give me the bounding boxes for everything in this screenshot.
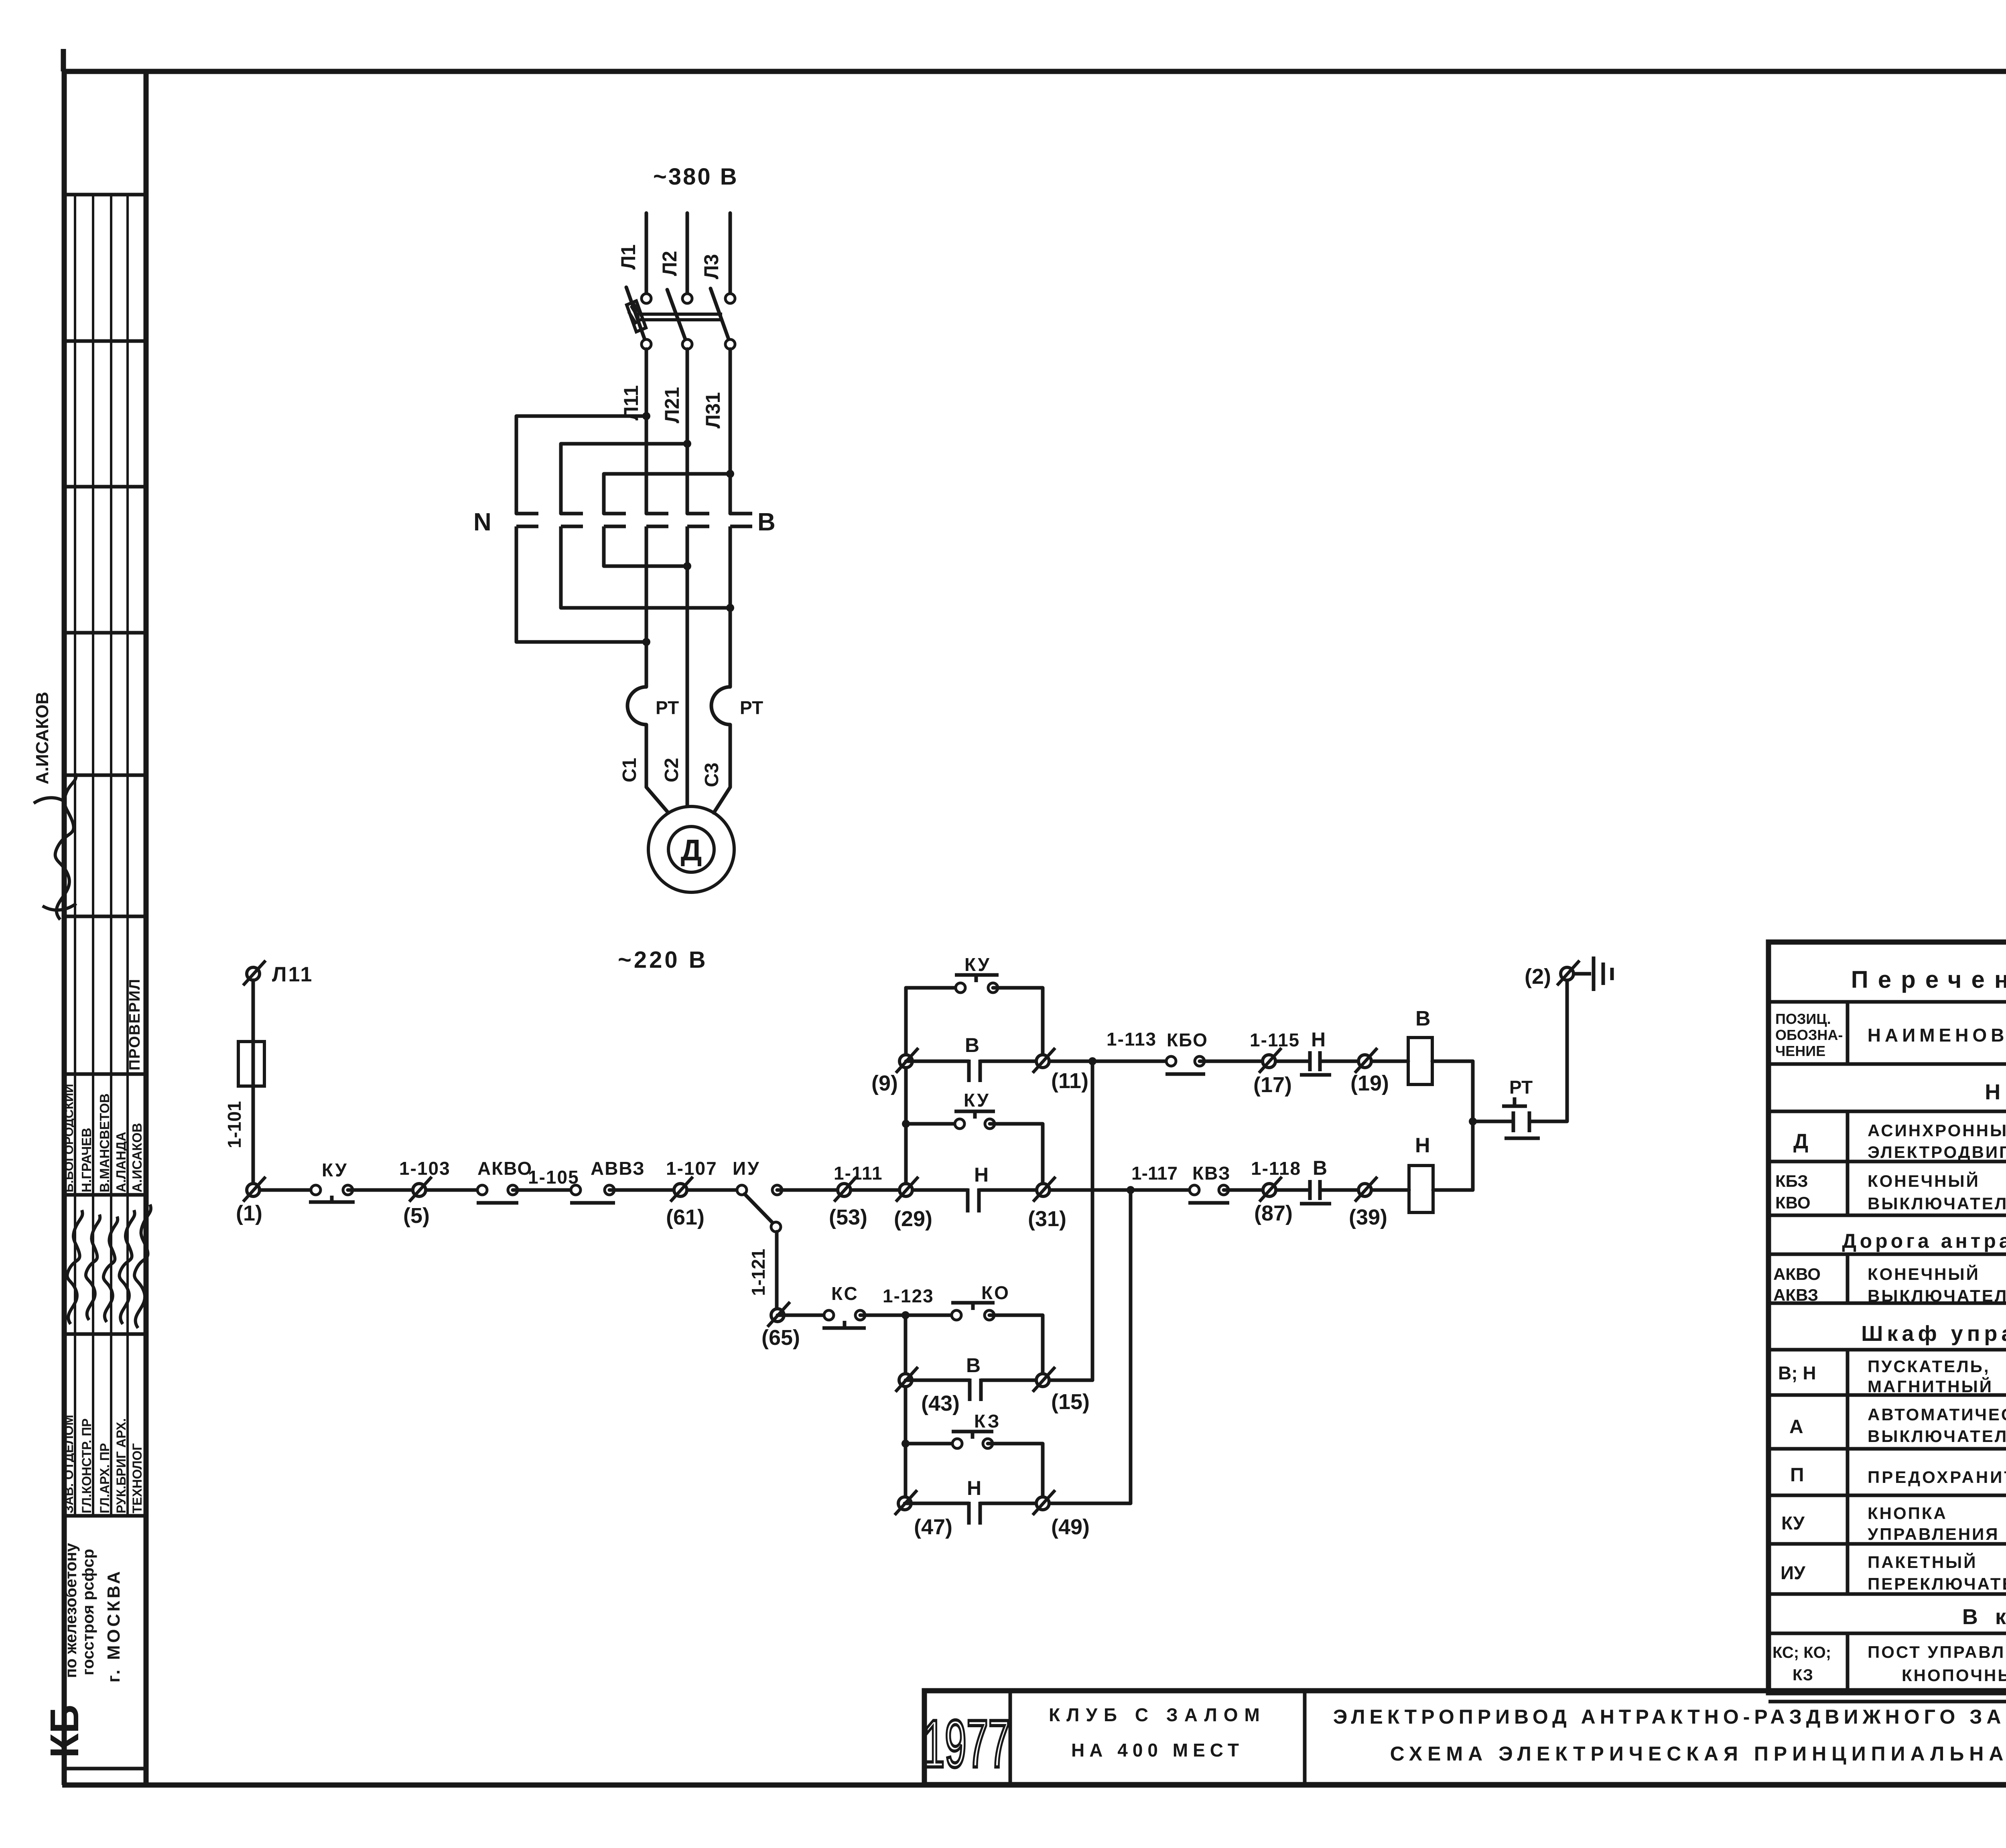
svg-text:А.ЛАНДА: А.ЛАНДА	[114, 1132, 128, 1192]
svg-text:ПЕРЕКЛЮЧАТЕЛЬ: ПЕРЕКЛЮЧАТЕЛЬ	[1868, 1574, 2006, 1593]
limit switch КБО contact	[1166, 1056, 1176, 1066]
stamp signature 2	[86, 1214, 100, 1320]
svg-text:ЭЛЕКТРОДВИГАТЕЛЬ: ЭЛЕКТРОДВИГАТЕЛЬ	[1868, 1143, 2006, 1162]
wire node to 43	[904, 1315, 908, 1503]
svg-text:КЗ: КЗ	[1793, 1666, 1813, 1684]
contactor B pole3 main contact	[730, 514, 752, 658]
svg-text:На лебедке МЛЗ-1: На лебедке МЛЗ-1	[1985, 1080, 2006, 1104]
svg-text:В: В	[966, 1354, 981, 1377]
АВВЗ bridge	[570, 1201, 615, 1205]
coil В	[1408, 1038, 1432, 1084]
contactor B pole2 main contact	[687, 514, 709, 807]
svg-text:А.ИСАКОВ: А.ИСАКОВ	[32, 692, 52, 784]
svg-text:N: N	[473, 508, 491, 536]
wire N pole2 to C3	[561, 606, 730, 610]
svg-text:Перечень элементов: Перечень элементов	[1851, 966, 2006, 993]
wire N pole3 to C2	[604, 565, 687, 568]
wire B row segment 4	[1320, 1060, 1408, 1063]
svg-text:(53): (53)	[829, 1205, 867, 1229]
svg-text:~220 В: ~220 В	[618, 947, 708, 973]
svg-text:АСИНХРОННЫЙ: АСИНХРОННЫЙ	[1868, 1121, 2006, 1140]
breaker A pole1 blade	[626, 287, 645, 339]
terminal (47)	[898, 1497, 911, 1510]
wire to RT contact	[1473, 1120, 1513, 1123]
svg-text:МАГНИТНЫЙ: МАГНИТНЫЙ	[1868, 1377, 1993, 1396]
svg-text:Л21: Л21	[661, 387, 683, 423]
svg-text:(65): (65)	[761, 1326, 800, 1350]
svg-text:1-103: 1-103	[399, 1158, 451, 1179]
svg-text:Л3: Л3	[700, 254, 723, 279]
stamp strip row lines	[64, 195, 146, 1769]
svg-text:КУ: КУ	[964, 954, 991, 975]
breaker A pole1 fixed contact	[642, 294, 651, 303]
parts table column lines kino block	[1848, 1633, 2006, 1693]
wire B lower row right	[981, 1379, 1092, 1382]
svg-text:(39): (39)	[1349, 1205, 1387, 1229]
svg-text:КУ: КУ	[322, 1160, 348, 1180]
wire KZ right corner	[988, 1444, 1043, 1503]
svg-text:Д: Д	[681, 833, 702, 867]
motor D outer circle	[648, 806, 734, 892]
thermal relay РТ contact	[1502, 1097, 1540, 1138]
wire 1-121 drop	[775, 1232, 779, 1310]
wire main row segment 1	[260, 1188, 316, 1192]
svg-text:Н: Н	[1415, 1134, 1430, 1157]
svg-text:Н: Н	[967, 1477, 981, 1499]
pushbutton КУ NC contact	[311, 1185, 321, 1195]
svg-text:1-123: 1-123	[883, 1285, 934, 1306]
wire main row segment 6	[979, 1188, 1194, 1192]
terminal Л11 slash	[243, 961, 266, 985]
svg-text:ВЫКЛЮЧАТЕЛЬ: ВЫКЛЮЧАТЕЛЬ	[1868, 1286, 2006, 1305]
terminal Л11 control feed	[247, 967, 260, 980]
svg-text:НАИМЕНОВАНИЕ: НАИМЕНОВАНИЕ	[1868, 1025, 2006, 1046]
svg-text:ЧЕНИЕ: ЧЕНИЕ	[1775, 1043, 1825, 1059]
node KZ branch	[901, 1440, 910, 1448]
terminal (39)	[1358, 1184, 1371, 1196]
wire B lower row left	[906, 1379, 970, 1382]
breaker A pole2 lower contact	[682, 339, 692, 349]
svg-text:ВЫКЛЮЧАТЕЛЬ: ВЫКЛЮЧАТЕЛЬ	[1868, 1427, 2006, 1446]
wire KO right corner	[989, 1315, 1043, 1380]
svg-text:СХЕМА ЭЛЕКТРИЧЕСКАЯ ПРИНЦИПИ: СХЕМА ЭЛЕКТРИЧЕСКАЯ ПРИНЦИПИАЛЬНАЯ	[1390, 1742, 2006, 1765]
svg-text:КВЗ: КВЗ	[1192, 1163, 1231, 1184]
svg-text:РТ: РТ	[740, 697, 763, 718]
terminal (5)	[413, 1184, 426, 1196]
wire branch to N pole2	[561, 444, 687, 514]
svg-text:КОНЕЧНЫЙ: КОНЕЧНЫЙ	[1868, 1171, 1980, 1190]
wire main row segment 2	[348, 1188, 482, 1192]
contact В self hold	[969, 1060, 980, 1082]
breaker A pole3 blade	[711, 288, 729, 339]
svg-text:КВО: КВО	[1775, 1193, 1811, 1212]
stamp strip right edge	[144, 69, 149, 1785]
svg-text:Н.ГРАЧЕВ: Н.ГРАЧЕВ	[79, 1128, 94, 1192]
parts table double bottom line	[1768, 1700, 2006, 1704]
svg-text:УПРАВЛЕНИЯ: УПРАВЛЕНИЯ	[1868, 1525, 1999, 1543]
wire H lower row left	[905, 1502, 969, 1505]
node C3 join	[726, 604, 734, 612]
wire L21	[686, 349, 689, 514]
selector ИУ right contact	[772, 1185, 782, 1195]
svg-text:АВВЗ: АВВЗ	[591, 1158, 645, 1179]
wire KZ row left	[906, 1442, 957, 1446]
node coils join	[1469, 1117, 1477, 1125]
svg-text:1977: 1977	[923, 1707, 1010, 1782]
breaker A coupling bar	[637, 314, 722, 320]
contact В lower	[970, 1379, 981, 1401]
contact Н self on main row	[968, 1188, 979, 1212]
wire vertical 29 to top branch	[904, 988, 908, 1184]
wire coil B out	[1432, 1060, 1473, 1063]
svg-text:(47): (47)	[914, 1515, 952, 1539]
terminal (61)	[674, 1184, 687, 1196]
svg-text:Шкаф управления ШУ5402-03В2: Шкаф управления ШУ5402-03В2В	[1861, 1322, 2006, 1346]
wire coils join vertical	[1471, 1061, 1475, 1190]
motor D inner circle	[668, 827, 714, 872]
wire coil H out	[1433, 1188, 1473, 1192]
svg-text:Н: Н	[974, 1164, 989, 1186]
svg-text:Дорога антрактно- раздвижного: Дорога антрактно- раздвижного занавеса	[1842, 1230, 2006, 1252]
wire second KU branch right	[990, 1124, 1043, 1184]
svg-text:КБЗ: КБЗ	[1775, 1172, 1808, 1190]
svg-text:П: П	[1790, 1464, 1804, 1486]
svg-text:(49): (49)	[1051, 1515, 1090, 1539]
svg-text:1-118: 1-118	[1251, 1158, 1301, 1179]
КУ NO top bridge	[955, 975, 999, 982]
terminal (43)	[899, 1374, 912, 1387]
svg-text:АКВО: АКВО	[477, 1158, 532, 1179]
thermal element RT on C1	[627, 658, 668, 813]
parts table column lines header block	[1848, 1002, 2006, 1064]
breaker A pole2 blade	[667, 290, 686, 340]
svg-text:ТЕХНОЛОГ: ТЕХНОЛОГ	[130, 1443, 144, 1513]
selector ИУ lower contact	[771, 1222, 781, 1232]
svg-text:1-101: 1-101	[224, 1101, 245, 1148]
terminal (11)	[1036, 1055, 1049, 1068]
svg-text:ИУ: ИУ	[733, 1158, 761, 1179]
terminal (87)	[1263, 1184, 1276, 1196]
svg-text:КНОПОЧНЫЙ: КНОПОЧНЫЙ	[1902, 1665, 2006, 1685]
svg-text:(17): (17)	[1253, 1073, 1292, 1097]
КС bridge	[822, 1321, 866, 1328]
border frame bottom	[62, 1783, 2006, 1788]
svg-text:1-105: 1-105	[528, 1167, 579, 1188]
svg-text:(11): (11)	[1051, 1069, 1088, 1093]
svg-text:ПРОВЕРИЛ: ПРОВЕРИЛ	[126, 978, 143, 1070]
contactor B pole1 main contact	[646, 514, 668, 658]
wire second KU branch left	[906, 1122, 960, 1126]
terminal (19)	[1358, 1055, 1371, 1068]
terminal (1)	[247, 1184, 260, 1196]
stamp signature 4	[119, 1210, 134, 1324]
svg-text:КОНЕЧНЫЙ: КОНЕЧНЫЙ	[1868, 1264, 1980, 1283]
svg-text:В: В	[1415, 1007, 1431, 1030]
svg-text:АКВО: АКВО	[1773, 1265, 1821, 1283]
svg-text:ОБОЗНА-: ОБОЗНА-	[1775, 1027, 1843, 1043]
svg-text:1-117: 1-117	[1131, 1163, 1178, 1184]
terminal (31)	[1037, 1184, 1050, 1196]
svg-text:госстроя рсфср: госстроя рсфср	[79, 1549, 97, 1675]
ground symbol	[1574, 956, 1612, 991]
svg-text:В.МАНСВЕТОВ: В.МАНСВЕТОВ	[97, 1093, 112, 1192]
wire L31	[729, 349, 732, 514]
svg-text:Л1: Л1	[617, 244, 640, 270]
selector ИУ pivot contact	[737, 1185, 747, 1195]
parts table column lines doroga block	[1848, 1254, 2006, 1303]
wire phase L3	[729, 213, 732, 293]
wire top KU branch left	[906, 986, 960, 990]
pushbutton КО NO contact	[952, 1310, 961, 1320]
contactor N pole1 main contact	[516, 514, 538, 642]
border frame top	[62, 49, 2006, 71]
svg-text:С3: С3	[701, 763, 723, 787]
wire fuse drop	[252, 980, 255, 1187]
parts table column lines lebedka block	[1848, 1111, 2006, 1215]
pushbutton КУ NO top contact	[956, 983, 965, 993]
wire main row segment 8	[1320, 1188, 1409, 1192]
svg-text:ПАКЕТНЫЙ: ПАКЕТНЫЙ	[1868, 1552, 1977, 1572]
wire B row segment 2	[980, 1060, 1171, 1063]
pushbutton КУ NO second contact	[955, 1119, 964, 1129]
wire 49 riser to H row	[1129, 1190, 1133, 1503]
terminal (2)	[1561, 967, 1574, 980]
wire KC row segment 1	[778, 1314, 829, 1317]
svg-text:(9): (9)	[871, 1071, 898, 1095]
svg-text:г. МОСКВА: г. МОСКВА	[104, 1569, 124, 1682]
svg-text:1-113: 1-113	[1107, 1029, 1157, 1050]
svg-text:(29): (29)	[894, 1207, 932, 1231]
svg-text:(87): (87)	[1254, 1201, 1293, 1225]
wire main row segment 4	[609, 1188, 742, 1192]
svg-text:КЗ: КЗ	[974, 1411, 1001, 1432]
fuse П 1-101	[238, 1042, 264, 1086]
wire L11	[645, 349, 648, 514]
svg-text:В: В	[757, 508, 776, 536]
contactor N pole3 main contact	[604, 514, 626, 566]
node 1-123	[901, 1311, 910, 1319]
pushbutton КЗ NO contact	[952, 1439, 962, 1448]
svg-text:КС: КС	[831, 1283, 859, 1304]
svg-text:(61): (61)	[666, 1205, 705, 1229]
contact В NC in H row	[1300, 1180, 1331, 1204]
svg-text:РТ: РТ	[1509, 1077, 1533, 1098]
КБО bridge	[1165, 1072, 1205, 1076]
svg-text:ПРЕДОХРАНИТЕЛЬ: ПРЕДОХРАНИТЕЛЬ	[1868, 1468, 2006, 1487]
wire top KU branch right	[993, 988, 1043, 1061]
thermal element RT on C3	[711, 658, 730, 813]
node L11 branch	[642, 412, 650, 420]
selector ИУ blade	[745, 1194, 773, 1223]
svg-text:ГЛ.КОНСТР. ПР: ГЛ.КОНСТР. ПР	[79, 1418, 94, 1513]
breaker A pole2 fixed contact	[682, 294, 692, 303]
svg-text:В; Н: В; Н	[1778, 1363, 1816, 1383]
svg-text:КО: КО	[981, 1282, 1010, 1303]
terminal (15)	[1036, 1374, 1049, 1387]
wire B row segment 1	[906, 1060, 969, 1063]
svg-text:В кинопроекционной: В кинопроекционной	[1962, 1605, 2006, 1629]
svg-text:(31): (31)	[1028, 1207, 1066, 1231]
svg-text:ПОЗИЦ.: ПОЗИЦ.	[1775, 1011, 1831, 1027]
svg-text:1-111: 1-111	[834, 1163, 883, 1184]
breaker A pole3 lower contact	[725, 339, 735, 349]
contact Н lower	[969, 1502, 980, 1525]
wire H lower row right	[980, 1502, 1131, 1505]
wire branch to N pole1	[516, 416, 646, 514]
svg-text:ИУ: ИУ	[1781, 1562, 1806, 1583]
svg-text:ПОСТ УПРАВЛЕНИЯ: ПОСТ УПРАВЛЕНИЯ	[1868, 1643, 2006, 1661]
svg-text:ЭЛЕКТРОПРИВОД АНТРАКТНО-РАЗДВ: ЭЛЕКТРОПРИВОД АНТРАКТНО-РАЗДВИЖНОГО ЗАНА…	[1333, 1706, 2006, 1728]
title block dividers	[1010, 1691, 2006, 1785]
stamp signature 1	[67, 1210, 82, 1324]
wire branch to N pole3	[604, 474, 730, 514]
svg-text:В: В	[965, 1034, 979, 1056]
КО bridge	[951, 1303, 995, 1310]
svg-text:Д: Д	[1793, 1130, 1808, 1153]
node C1 join	[642, 638, 650, 646]
parts table row lines	[1768, 1002, 2006, 1633]
svg-text:А.ИСАКОВ: А.ИСАКОВ	[130, 1123, 144, 1192]
wire 15 riser to B row	[1091, 1061, 1094, 1380]
stamp signature 3	[104, 1216, 118, 1322]
svg-text:(1): (1)	[236, 1201, 262, 1225]
svg-text:(15): (15)	[1051, 1390, 1090, 1414]
wire B row segment 3	[1200, 1060, 1310, 1063]
svg-text:(43): (43)	[921, 1391, 960, 1415]
svg-text:РТ: РТ	[656, 697, 679, 718]
wire main row segment 3	[513, 1188, 576, 1192]
svg-text:(19): (19)	[1350, 1071, 1389, 1095]
pushbutton КС NC contact	[824, 1310, 834, 1320]
svg-text:по железобетону: по железобетону	[62, 1543, 80, 1678]
wire phase L2	[686, 213, 689, 293]
node KU2 branch	[902, 1120, 910, 1128]
node L31 branch	[726, 470, 734, 478]
svg-text:Н: Н	[1311, 1028, 1326, 1051]
КЗ bridge	[952, 1432, 993, 1439]
node L21 branch	[683, 440, 691, 448]
svg-text:Л31: Л31	[702, 392, 724, 428]
wire main row segment 7	[1224, 1188, 1310, 1192]
stamp signature 5	[134, 1204, 151, 1328]
svg-text:1-121: 1-121	[748, 1249, 769, 1296]
pushbutton КУ NC bridge	[309, 1196, 355, 1202]
svg-text:В: В	[1313, 1157, 1327, 1179]
contactor N pole2 main contact	[561, 514, 583, 608]
wire KC row segment 2	[860, 1314, 956, 1317]
svg-text:С1: С1	[619, 758, 640, 782]
svg-text:С2: С2	[661, 758, 682, 782]
breaker A pole3 fixed contact	[725, 294, 735, 303]
svg-text:(5): (5)	[403, 1204, 430, 1228]
limit switch АКВО contact	[477, 1185, 487, 1195]
terminal (29)	[899, 1184, 912, 1196]
terminal (49)	[1036, 1497, 1049, 1510]
svg-text:АВТОМАТИЧЕСКИЙ: АВТОМАТИЧЕСКИЙ	[1868, 1405, 2006, 1424]
svg-text:Л2: Л2	[658, 251, 681, 276]
parts table column lines shkaf block	[1848, 1350, 2006, 1594]
title block frame	[924, 1691, 2006, 1785]
terminal (65)	[771, 1309, 784, 1322]
terminal (9)	[899, 1055, 912, 1068]
svg-text:КЛУБ С ЗАЛОМ: КЛУБ С ЗАЛОМ	[1049, 1704, 1266, 1725]
wire phase L1	[645, 213, 648, 293]
title year 1977	[923, 1707, 1010, 1782]
svg-text:1-115: 1-115	[1250, 1030, 1300, 1050]
svg-text:КНОПКА: КНОПКА	[1868, 1504, 1947, 1523]
wire RT to ground riser	[1529, 980, 1567, 1121]
svg-text:~380 В: ~380 В	[653, 164, 739, 190]
wire N pole1 to C1	[516, 640, 646, 644]
breaker A handle hatched	[627, 301, 646, 332]
svg-text:ВЫКЛЮЧАТЕЛЬ: ВЫКЛЮЧАТЕЛЬ	[1868, 1194, 2006, 1213]
terminal (17)	[1263, 1055, 1275, 1068]
stamp strip sub column lines	[75, 195, 128, 1516]
svg-text:(2): (2)	[1525, 965, 1551, 989]
svg-text:КС; КО;: КС; КО;	[1773, 1644, 1831, 1661]
svg-text:Л11: Л11	[272, 963, 313, 986]
terminal (53)	[838, 1184, 851, 1196]
svg-text:КБО: КБО	[1167, 1030, 1208, 1050]
КУ NO second bridge	[954, 1111, 995, 1119]
АКВО bridge	[477, 1201, 518, 1205]
parts table outer frame	[1768, 942, 2006, 1693]
limit switch АВВЗ contact	[571, 1185, 581, 1195]
svg-text:ГЛ.АРХ. ПР: ГЛ.АРХ. ПР	[97, 1443, 112, 1513]
svg-text:Б.БОГОРОДСКИЙ: Б.БОГОРОДСКИЙ	[61, 1084, 76, 1193]
limit switch КВЗ contact	[1190, 1185, 1199, 1195]
svg-text:РУК.БРИГ АРХ.: РУК.БРИГ АРХ.	[114, 1418, 128, 1513]
svg-text:КУ: КУ	[964, 1090, 990, 1111]
breaker A pole1 lower contact	[642, 339, 651, 349]
svg-text:АКВЗ: АКВЗ	[1773, 1285, 1818, 1304]
svg-text:КБ: КБ	[42, 1705, 87, 1758]
coil Н	[1409, 1166, 1433, 1212]
КВЗ bridge	[1188, 1201, 1229, 1205]
border frame left	[62, 69, 67, 1785]
node H row branch	[1127, 1186, 1135, 1194]
node C2 join	[683, 562, 691, 570]
wire main row segment 5	[777, 1188, 968, 1192]
svg-text:А: А	[1789, 1416, 1803, 1438]
svg-text:1-107: 1-107	[666, 1158, 717, 1179]
svg-text:ЗАВ. ОТДЕЛОМ: ЗАВ. ОТДЕЛОМ	[61, 1415, 76, 1513]
margin signature	[34, 774, 76, 920]
svg-text:НА 400 МЕСТ: НА 400 МЕСТ	[1071, 1740, 1244, 1761]
node B row to 15	[1088, 1057, 1096, 1065]
svg-text:ПУСКАТЕЛЬ,: ПУСКАТЕЛЬ,	[1868, 1357, 1990, 1376]
svg-text:КУ: КУ	[1781, 1513, 1805, 1533]
contact Н NC in B row	[1300, 1051, 1331, 1075]
